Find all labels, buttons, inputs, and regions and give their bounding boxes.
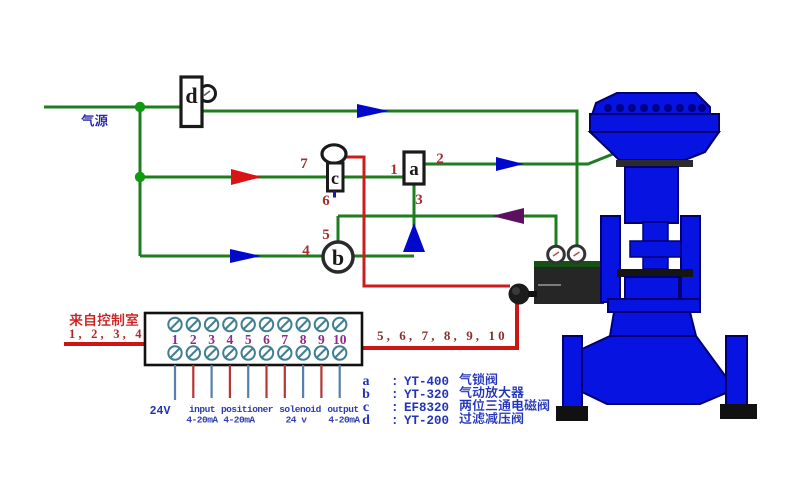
valve right flange [726,336,747,408]
svg-text:5: 5 [245,332,252,347]
label solenoid 24 v [279,404,321,426]
wire line 2 from a to actuator diaphragm [424,154,613,164]
svg-text:7: 7 [281,332,288,347]
positioner green top strip [534,261,604,267]
port label 3 [415,192,423,208]
svg-text:positioner: positioner [221,404,274,415]
red wire from control room into terminal box [64,342,146,346]
svg-text:9: 9 [318,332,325,347]
port label 4 [302,243,310,259]
actuator lower dome [590,132,719,160]
stem coupling [630,241,681,257]
wire line 7 from bus to valve a through c [140,176,404,179]
actuator flange dark bar [616,160,693,167]
svg-text:1: 1 [172,332,179,347]
port label 1 [390,162,398,178]
svg-text::: : [391,414,399,428]
svg-text:YT-200: YT-200 [404,414,449,428]
svg-text:24V: 24V [150,405,171,418]
bonnet flange [608,299,700,312]
valve bonnet trapezoid [610,312,696,336]
component b YT-320 booster circle [323,242,353,272]
svg-text:5, 6, 7, 8, 9, 10: 5, 6, 7, 8, 9, 10 [377,328,508,343]
arrow blue up into port 3 [403,223,425,252]
arrow blue on air supply line [357,104,389,118]
svg-text::: : [391,375,399,389]
svg-text:6: 6 [322,193,330,209]
arrow purple left on line 5 [492,208,524,224]
arrow blue on line 4 [230,249,261,263]
svg-text:output: output [327,404,358,415]
port label 2 [436,151,444,167]
black band under yoke [617,269,693,277]
legend letter a row [363,374,450,389]
svg-text:1, 2, 3, 4: 1, 2, 3, 4 [69,327,145,341]
arrow red on line 7 [231,169,262,185]
positioner black box [534,267,604,304]
svg-text:8: 8 [300,332,307,347]
red wire terminal box to ball [363,300,517,348]
wire line 4 through b [140,255,414,258]
component c EF8320 solenoid body box [328,163,344,191]
terminal screws bottom row [168,346,346,359]
label output 4-20mA [327,404,360,426]
actuator mid band [590,114,719,132]
gauge 1 on positioner [548,246,565,263]
left foot [556,406,588,421]
svg-text:d: d [362,413,370,428]
svg-text:d: d [185,83,197,108]
wire vertical bus from junction down [139,107,142,256]
valve left flange [563,336,582,408]
label positioner 4-20mA [221,404,274,426]
label from control room 来自控制室 [69,313,138,326]
actuator neck column [625,167,678,223]
legend letter b row [362,387,449,402]
svg-text:2: 2 [436,151,444,167]
svg-text:a: a [409,159,419,180]
junction node at air inlet [135,102,145,112]
label 24V [150,405,171,418]
svg-text:YT-320: YT-320 [404,388,449,402]
svg-text::: : [391,388,399,402]
yoke left leg [601,216,620,302]
label air source 气源 [81,114,108,127]
yoke right leg [681,216,700,302]
valve stem [643,222,668,269]
svg-text:24 v: 24 v [286,415,308,426]
svg-text:4-20mA: 4-20mA [328,415,360,426]
wire air supply main line right of d, corner down to gauge [202,111,577,247]
svg-text:b: b [332,245,344,270]
svg-text::: : [391,401,399,415]
svg-text:c: c [331,168,339,188]
svg-text:YT-400: YT-400 [404,375,449,389]
svg-text:3: 3 [415,192,423,208]
label wires 5-10 [377,328,508,343]
port label 7 [300,156,308,172]
wire line 5 riser from b [337,216,340,244]
svg-text:5: 5 [322,227,330,243]
svg-text:10: 10 [333,332,347,347]
svg-text:4: 4 [302,243,310,259]
terminal screws top row [168,318,346,331]
legend letter d row [362,413,449,428]
svg-text:4: 4 [227,332,234,347]
svg-text:solenoid: solenoid [279,404,321,415]
terminal numbers 1-10 [172,332,347,347]
svg-text:4-20mA: 4-20mA [223,415,255,426]
svg-text:1: 1 [390,162,398,178]
label wires 1,2,3,4 [69,327,145,341]
label input 4-20mA [186,404,218,426]
actuator diaphragm cap [592,93,710,115]
arrow blue on line 2 [496,157,524,171]
svg-text:3: 3 [208,332,215,347]
right foot [720,404,757,419]
gauge 2 on positioner [568,246,585,263]
junction node at line 7 [135,172,145,182]
valve body [582,336,726,404]
svg-text:6: 6 [263,332,270,347]
component a YT-400 air lock valve box [404,152,424,184]
red signal wire from c to positioner ball [344,157,510,286]
svg-text:2: 2 [190,332,197,347]
svg-text:EF8320: EF8320 [404,401,449,415]
port label 5 [322,227,330,243]
port label 6 [322,193,330,209]
svg-text:input: input [189,404,215,415]
svg-text:7: 7 [300,156,308,172]
port 6 blue stub under c [333,191,336,198]
component c EF8320 solenoid coil ellipse [322,145,346,163]
connector ball on positioner [509,284,538,305]
svg-text:4-20mA: 4-20mA [186,415,218,426]
gauge on d [200,86,216,102]
wire line 5 horizontal to positioner gauge [338,216,556,247]
component d YT-200 filter regulator box [181,77,202,127]
wire air supply main line left of d [44,106,181,109]
terminal wires below box [175,365,340,400]
bonnet upper [625,277,679,299]
legend letter c row [363,400,449,415]
actuator bolt scallops [604,104,706,112]
terminal box [145,313,362,365]
wire line 3 vertical below a [413,184,416,230]
